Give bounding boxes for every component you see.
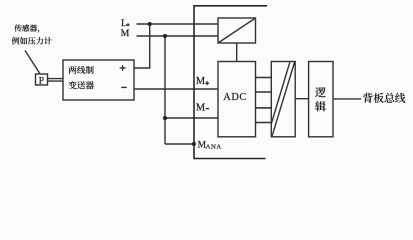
svg-text:P: P <box>39 76 44 86</box>
svg-text:M: M <box>196 102 205 113</box>
svg-text:ANA: ANA <box>206 143 222 150</box>
svg-text:M: M <box>121 28 130 39</box>
svg-text:ADC: ADC <box>223 92 247 103</box>
svg-text:M: M <box>196 76 205 87</box>
